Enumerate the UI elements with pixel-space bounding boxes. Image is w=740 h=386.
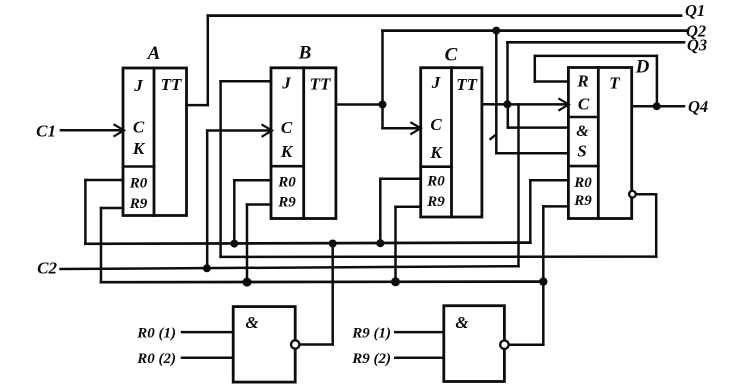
wire R0 gate output horizontal: [299, 343, 332, 346]
wire Q2 riser / B output down to C clock: [381, 31, 384, 129]
wire C output to D clock: [482, 103, 568, 106]
svg-text:R9: R9: [129, 196, 148, 212]
wire C1 input: [61, 129, 123, 132]
flip-flop D outline: [568, 68, 631, 219]
inversion bubble D complement output: [629, 191, 636, 198]
wire B R9 riser: [246, 205, 249, 283]
wire B R0 riser: [233, 180, 236, 243]
wire R9 gate output horizontal: [509, 343, 544, 346]
stray tick on S riser: [491, 135, 496, 139]
flip-flop A K/R0 divider: [123, 165, 154, 168]
wire D inverted output vertical: [655, 194, 658, 256]
svg-text:C: C: [445, 45, 458, 66]
wire Q4 wrap top: [535, 55, 657, 58]
AND gate R9 (U2) outline: [444, 306, 505, 382]
wire B R9 input: [247, 203, 271, 206]
wire D inverted output stub: [636, 193, 656, 196]
svg-text:A: A: [147, 43, 161, 64]
clock arrow C: [411, 123, 421, 134]
svg-text:TT: TT: [310, 75, 331, 94]
flip-flop A outline: [123, 68, 187, 216]
svg-text:C2: C2: [37, 259, 57, 278]
wire R0(1) input: [182, 331, 233, 334]
svg-text:R0: R0: [426, 174, 445, 190]
wire R9(1) input: [395, 331, 444, 334]
flip-flop D column divider: [597, 68, 600, 219]
wire D R input: [535, 80, 569, 83]
flip-flop B K/R0 divider: [271, 165, 304, 168]
svg-text:TT: TT: [161, 75, 182, 94]
svg-text:R: R: [576, 72, 588, 91]
wire Q1 horizontal: [208, 14, 681, 17]
wire A output: [187, 104, 208, 107]
wire D R0 riser: [529, 180, 532, 242]
wire A R0 riser: [84, 180, 87, 244]
flip-flop C K/R0 divider: [421, 165, 452, 168]
inversion bubble R9 gate: [500, 341, 508, 349]
svg-text:R0: R0: [277, 175, 296, 191]
junction dot R0 bus / B R0: [230, 240, 238, 248]
svg-text:K: K: [429, 143, 443, 162]
svg-text:R0 (2): R0 (2): [136, 351, 176, 367]
wire C R9 riser: [394, 207, 397, 282]
svg-text:T: T: [609, 74, 620, 93]
wire B J riser: [219, 81, 222, 257]
wire Q4 wrap right vertical: [656, 56, 659, 106]
wire D R9 input: [543, 205, 568, 208]
wire Q1 riser from A output: [207, 16, 210, 106]
svg-text:B: B: [298, 43, 312, 64]
wire B clock input: [207, 129, 271, 132]
junction dot Q4 / wrap: [653, 102, 661, 110]
flip-flop C column divider: [450, 68, 453, 217]
wire R0 bus: [85, 243, 530, 244]
junction dot R9 bus / C R9: [391, 277, 400, 286]
wire D S input: [496, 152, 568, 155]
svg-text:J: J: [133, 76, 143, 95]
svg-text:R9 (1): R9 (1): [351, 326, 391, 342]
wire B J input: [221, 80, 271, 83]
flip-flop D S/R0 divider: [568, 165, 598, 168]
svg-text:&: &: [576, 123, 589, 140]
wire D AND input: [508, 126, 569, 129]
junction dot B output: [379, 101, 387, 109]
wire Q2 to D S riser: [495, 31, 498, 154]
svg-text:J: J: [281, 74, 291, 93]
svg-text:R9: R9: [573, 193, 592, 209]
svg-text:C: C: [133, 118, 145, 137]
wire D R0 input: [530, 179, 568, 182]
wire drop to D AND input: [507, 104, 510, 127]
junction dot R0 bus / gate output: [329, 240, 337, 248]
wire C clock input: [383, 127, 420, 130]
AND gate R0 (U1) outline: [233, 307, 295, 383]
wire C R0 input: [380, 177, 420, 180]
wire B output: [336, 103, 383, 106]
flip-flop B column divider: [302, 68, 305, 219]
wire Q3 horizontal: [508, 41, 685, 44]
wire C2 horizontal: [61, 266, 519, 269]
svg-text:Q1: Q1: [685, 1, 705, 20]
wire A R9 input: [101, 207, 123, 210]
svg-text:TT: TT: [456, 75, 477, 94]
clock arrow A: [115, 125, 125, 136]
svg-text:R9: R9: [426, 194, 445, 210]
junction dot R9 bus / B R9: [243, 278, 252, 287]
svg-text:Q4: Q4: [688, 97, 708, 116]
wire Q4 wrap left vertical: [534, 56, 537, 82]
flip-flop A column divider: [153, 68, 156, 216]
svg-text:C: C: [430, 115, 442, 134]
clock arrow B: [263, 125, 273, 136]
flip-flop D C/& divider: [568, 116, 598, 119]
svg-text:R0 (1): R0 (1): [136, 326, 176, 342]
wire R9(2) input: [395, 356, 444, 359]
svg-text:&: &: [455, 313, 469, 332]
wire Q3 riser: [506, 42, 509, 104]
wire C2 riser to D clock: [517, 104, 520, 266]
svg-text:D: D: [635, 57, 650, 78]
svg-text:R0: R0: [129, 176, 148, 192]
svg-text:&: &: [245, 313, 259, 332]
svg-text:C: C: [578, 95, 590, 114]
wire Q4 horizontal: [632, 105, 684, 108]
svg-text:J: J: [431, 73, 441, 92]
svg-text:S: S: [577, 142, 586, 161]
wire A R9 riser: [100, 208, 103, 282]
wire B clock riser from C2: [206, 131, 209, 269]
svg-text:R0: R0: [573, 175, 592, 191]
svg-text:K: K: [132, 139, 146, 158]
wire B R0 input: [234, 179, 271, 182]
svg-text:R9: R9: [277, 195, 296, 211]
junction dot R9 bus / R9 gate: [539, 277, 547, 285]
junction dot C2 / B clock: [203, 264, 211, 272]
wire C R9 input: [396, 205, 421, 208]
wire R9 gate output vertical: [542, 206, 545, 344]
wire D inverted output feedback horizontal: [221, 255, 657, 258]
flip-flop B outline: [271, 68, 336, 219]
junction dot Q2/S riser: [492, 27, 500, 35]
inversion bubble R0 gate: [291, 340, 299, 348]
wire A R0 input: [85, 179, 123, 182]
svg-text:C: C: [281, 118, 293, 137]
svg-text:C1: C1: [36, 122, 56, 141]
wire C R0 riser: [379, 179, 382, 244]
clock arrow D: [559, 99, 569, 110]
wire R0(2) input: [182, 356, 233, 359]
flip-flop C outline: [421, 68, 482, 217]
wire Q2 horizontal: [383, 29, 687, 32]
junction dot C output / Q3: [503, 100, 511, 108]
svg-text:K: K: [280, 142, 294, 161]
junction dot R0 bus / C R0: [376, 239, 384, 247]
wire R9 bus: [101, 280, 543, 283]
svg-text:R9 (2): R9 (2): [351, 351, 391, 367]
wire R0 gate output riser: [331, 244, 334, 345]
svg-text:Q3: Q3: [687, 36, 707, 55]
